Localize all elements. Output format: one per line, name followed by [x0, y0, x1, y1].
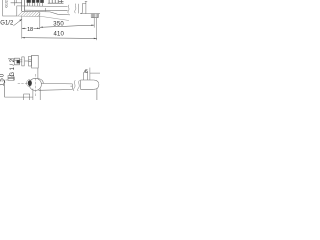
svg-text:350: 350 — [53, 22, 64, 28]
top view: spout pipe top line — [17, 5, 68, 8]
top view: cross arm (set screw) — [11, 0, 22, 6]
front view: dome circle — [29, 78, 41, 90]
front view: outlet body box — [81, 80, 94, 89]
dimension 410 line — [22, 37, 97, 40]
dimension 150 line — [4, 80, 6, 97]
front view: lower-left connector box — [8, 76, 15, 81]
front view: connector dash — [25, 60, 29, 62]
front view: outlet rounded nose — [94, 80, 99, 89]
front view: inlet small box A — [8, 58, 20, 65]
top view: riser union tee bar — [85, 0, 87, 2]
svg-text:18: 18 — [27, 27, 33, 33]
dimension 150 arrow up — [4, 80, 5, 83]
front view: flange C — [29, 56, 32, 66]
front view: body D — [32, 55, 39, 68]
top view: short stub line — [44, 8, 46, 11]
top view: elbow flange left edge — [77, 4, 79, 14]
front view: union nut B — [22, 57, 24, 66]
top view: spout pipe bottom line — [25, 9, 68, 12]
front view: vertical centerline dashes — [34, 74, 36, 96]
svg-text:G1/2: G1/2 — [4, 0, 8, 8]
front view: spout end cap — [70, 84, 72, 90]
extension line left (wall face) — [21, 16, 23, 38]
svg-text:G1/2: G1/2 — [10, 58, 16, 76]
front view: spout break curve left — [73, 80, 75, 91]
svg-text:G1/2: G1/2 — [0, 21, 14, 27]
dimension 18 arrows — [22, 28, 40, 30]
front view: lever knob filled ellipse — [27, 80, 32, 87]
top view: wall escutcheon edges — [22, 0, 25, 11]
svg-text:410: 410 — [54, 31, 65, 37]
extension line right overall — [96, 18, 98, 40]
front view: outlet side extension line — [90, 68, 100, 80]
front view: spout bottom line — [39, 89, 73, 92]
top view: comb fitting (cut at top edge) — [48, 0, 64, 3]
top view: riser pipe at wall elbow — [81, 2, 86, 14]
front view: lower small box (hose end) — [24, 94, 30, 100]
top view: pipe break curve right — [75, 4, 76, 14]
dimension 410 arrows — [22, 37, 97, 39]
front view: spout shoulder curve — [38, 79, 44, 84]
background — [0, 0, 100, 100]
top view: wall bottom line — [17, 16, 69, 21]
top view: wall section hatching — [18, 12, 40, 17]
dimension 150 top reference tick — [6, 79, 8, 81]
extension line spout start — [39, 12, 41, 29]
top view: wall elbow baseline right — [80, 13, 100, 15]
front view: inlet small box A dark insert — [17, 60, 20, 63]
front view: spout top line — [41, 82, 72, 85]
top view: knurled handle block — [27, 0, 44, 6]
extension line pipe entry — [93, 18, 95, 28]
dimension 350 line — [40, 25, 94, 27]
dimension 18 line — [22, 27, 40, 29]
top view: wall face line — [22, 11, 70, 15]
top view: hatched wall box at pipe entry — [91, 14, 98, 18]
front view: outlet mouth extension — [96, 89, 98, 100]
front view: outlet neck — [84, 72, 88, 80]
front view: down tube below dome — [33, 89, 40, 100]
svg-text:45: 45 — [84, 68, 89, 73]
dimension 350 arrows — [40, 25, 94, 28]
front view: inlet nipple lines — [20, 60, 23, 62]
dimension 150 bottom reference line — [5, 96, 34, 98]
front view: horizontal centerline dashes — [18, 82, 29, 84]
front view: body neck right edge down to dome — [37, 68, 39, 79]
front view: spout break curve right — [78, 80, 80, 91]
top view: pipe break curve left — [68, 5, 69, 14]
top view: mixer body box — [3, 0, 17, 16]
